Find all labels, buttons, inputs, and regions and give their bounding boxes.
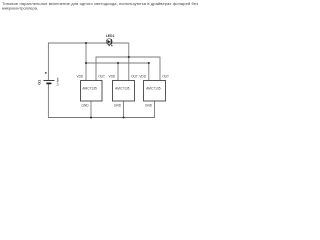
wire VDD bus [86, 62, 149, 64]
wire top right: corner down to OUT2 pin [128, 43, 130, 81]
svg-text:VDD: VDD [108, 74, 115, 78]
svg-text:GND: GND [114, 104, 122, 108]
svg-text:OUT: OUT [98, 74, 105, 78]
node VDD2 bus junction [117, 62, 119, 64]
svg-text:AMC7135: AMC7135 [146, 87, 161, 91]
node GND1 bottom wire junction [90, 116, 92, 118]
svg-text:GND: GND [145, 104, 153, 108]
node VDD3 bus corner [148, 62, 150, 64]
wire GND1 pin [90, 101, 92, 118]
wire top left: battery + to LED anode [48, 43, 128, 80]
svg-text:OUT: OUT [162, 74, 169, 78]
svg-text:LED1: LED1 [106, 34, 115, 38]
IC U2 AMC7135 [108, 74, 137, 107]
svg-text:микроконтроллера.: микроконтроллера. [2, 5, 38, 10]
LED D1 symbol [106, 34, 115, 46]
svg-text:AMC7135: AMC7135 [82, 87, 97, 91]
svg-text:VDD: VDD [139, 74, 146, 78]
wire GND2 pin [123, 101, 125, 118]
svg-text:GND: GND [82, 104, 90, 108]
node VDD tap on top wire [85, 42, 87, 44]
wire VDD3 riser [148, 63, 150, 81]
node GND2 bottom wire junction [122, 116, 124, 118]
node junction dots [85, 42, 150, 119]
battery G1 [38, 72, 60, 86]
wire VDD1 riser [85, 43, 87, 81]
svg-text:VDD: VDD [76, 74, 83, 78]
IC U1 AMC7135 [76, 74, 105, 107]
svg-text:OUT: OUT [131, 74, 138, 78]
node VDD1 bus junction [85, 62, 87, 64]
wire bottom: battery - to GND pins [48, 84, 154, 118]
svg-text:G1: G1 [38, 80, 42, 85]
wire OUT bus with corners to OUT1 and OUT3 pins [96, 57, 160, 81]
wire VDD2 riser [117, 63, 119, 81]
svg-text:AMC7135: AMC7135 [115, 87, 130, 91]
IC U3 AMC7135 [139, 74, 169, 107]
node OUT2 bus junction [128, 56, 130, 58]
svg-text:Li-Ion: Li-Ion [56, 77, 60, 85]
